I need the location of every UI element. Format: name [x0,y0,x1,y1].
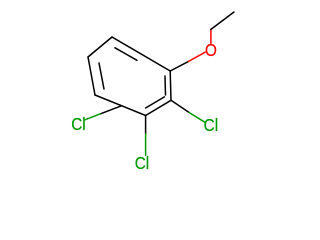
svg-text:Cl: Cl [204,115,218,135]
svg-text:O: O [205,40,217,60]
ring right edge [169,71,172,100]
svg-text:Cl: Cl [135,153,149,173]
bond to left Cl black half [100,106,122,114]
C-O bond black half [170,61,188,71]
svg-text:Cl: Cl [71,114,85,134]
bond to bottom Cl black half [145,116,147,135]
bond to bottom Cl green half [145,134,147,155]
ring left edge [88,57,95,95]
C-O bond red half [189,52,206,61]
inner double bond bottom-right [146,97,165,108]
inner double bond top [115,48,137,61]
bond to left Cl green half [85,114,100,120]
ring edge top-left [88,37,112,57]
ring edge bottom-right [146,100,171,115]
methyl diagonal [211,12,234,29]
inner double bond left [99,63,104,89]
ring edge bottom-left long [95,95,146,116]
inner double bond right [164,76,167,95]
ring edge top-right long [112,37,170,71]
bond to right Cl black half [171,100,189,112]
O-C red vertical half [210,29,212,43]
bond to right Cl green half [189,113,205,123]
